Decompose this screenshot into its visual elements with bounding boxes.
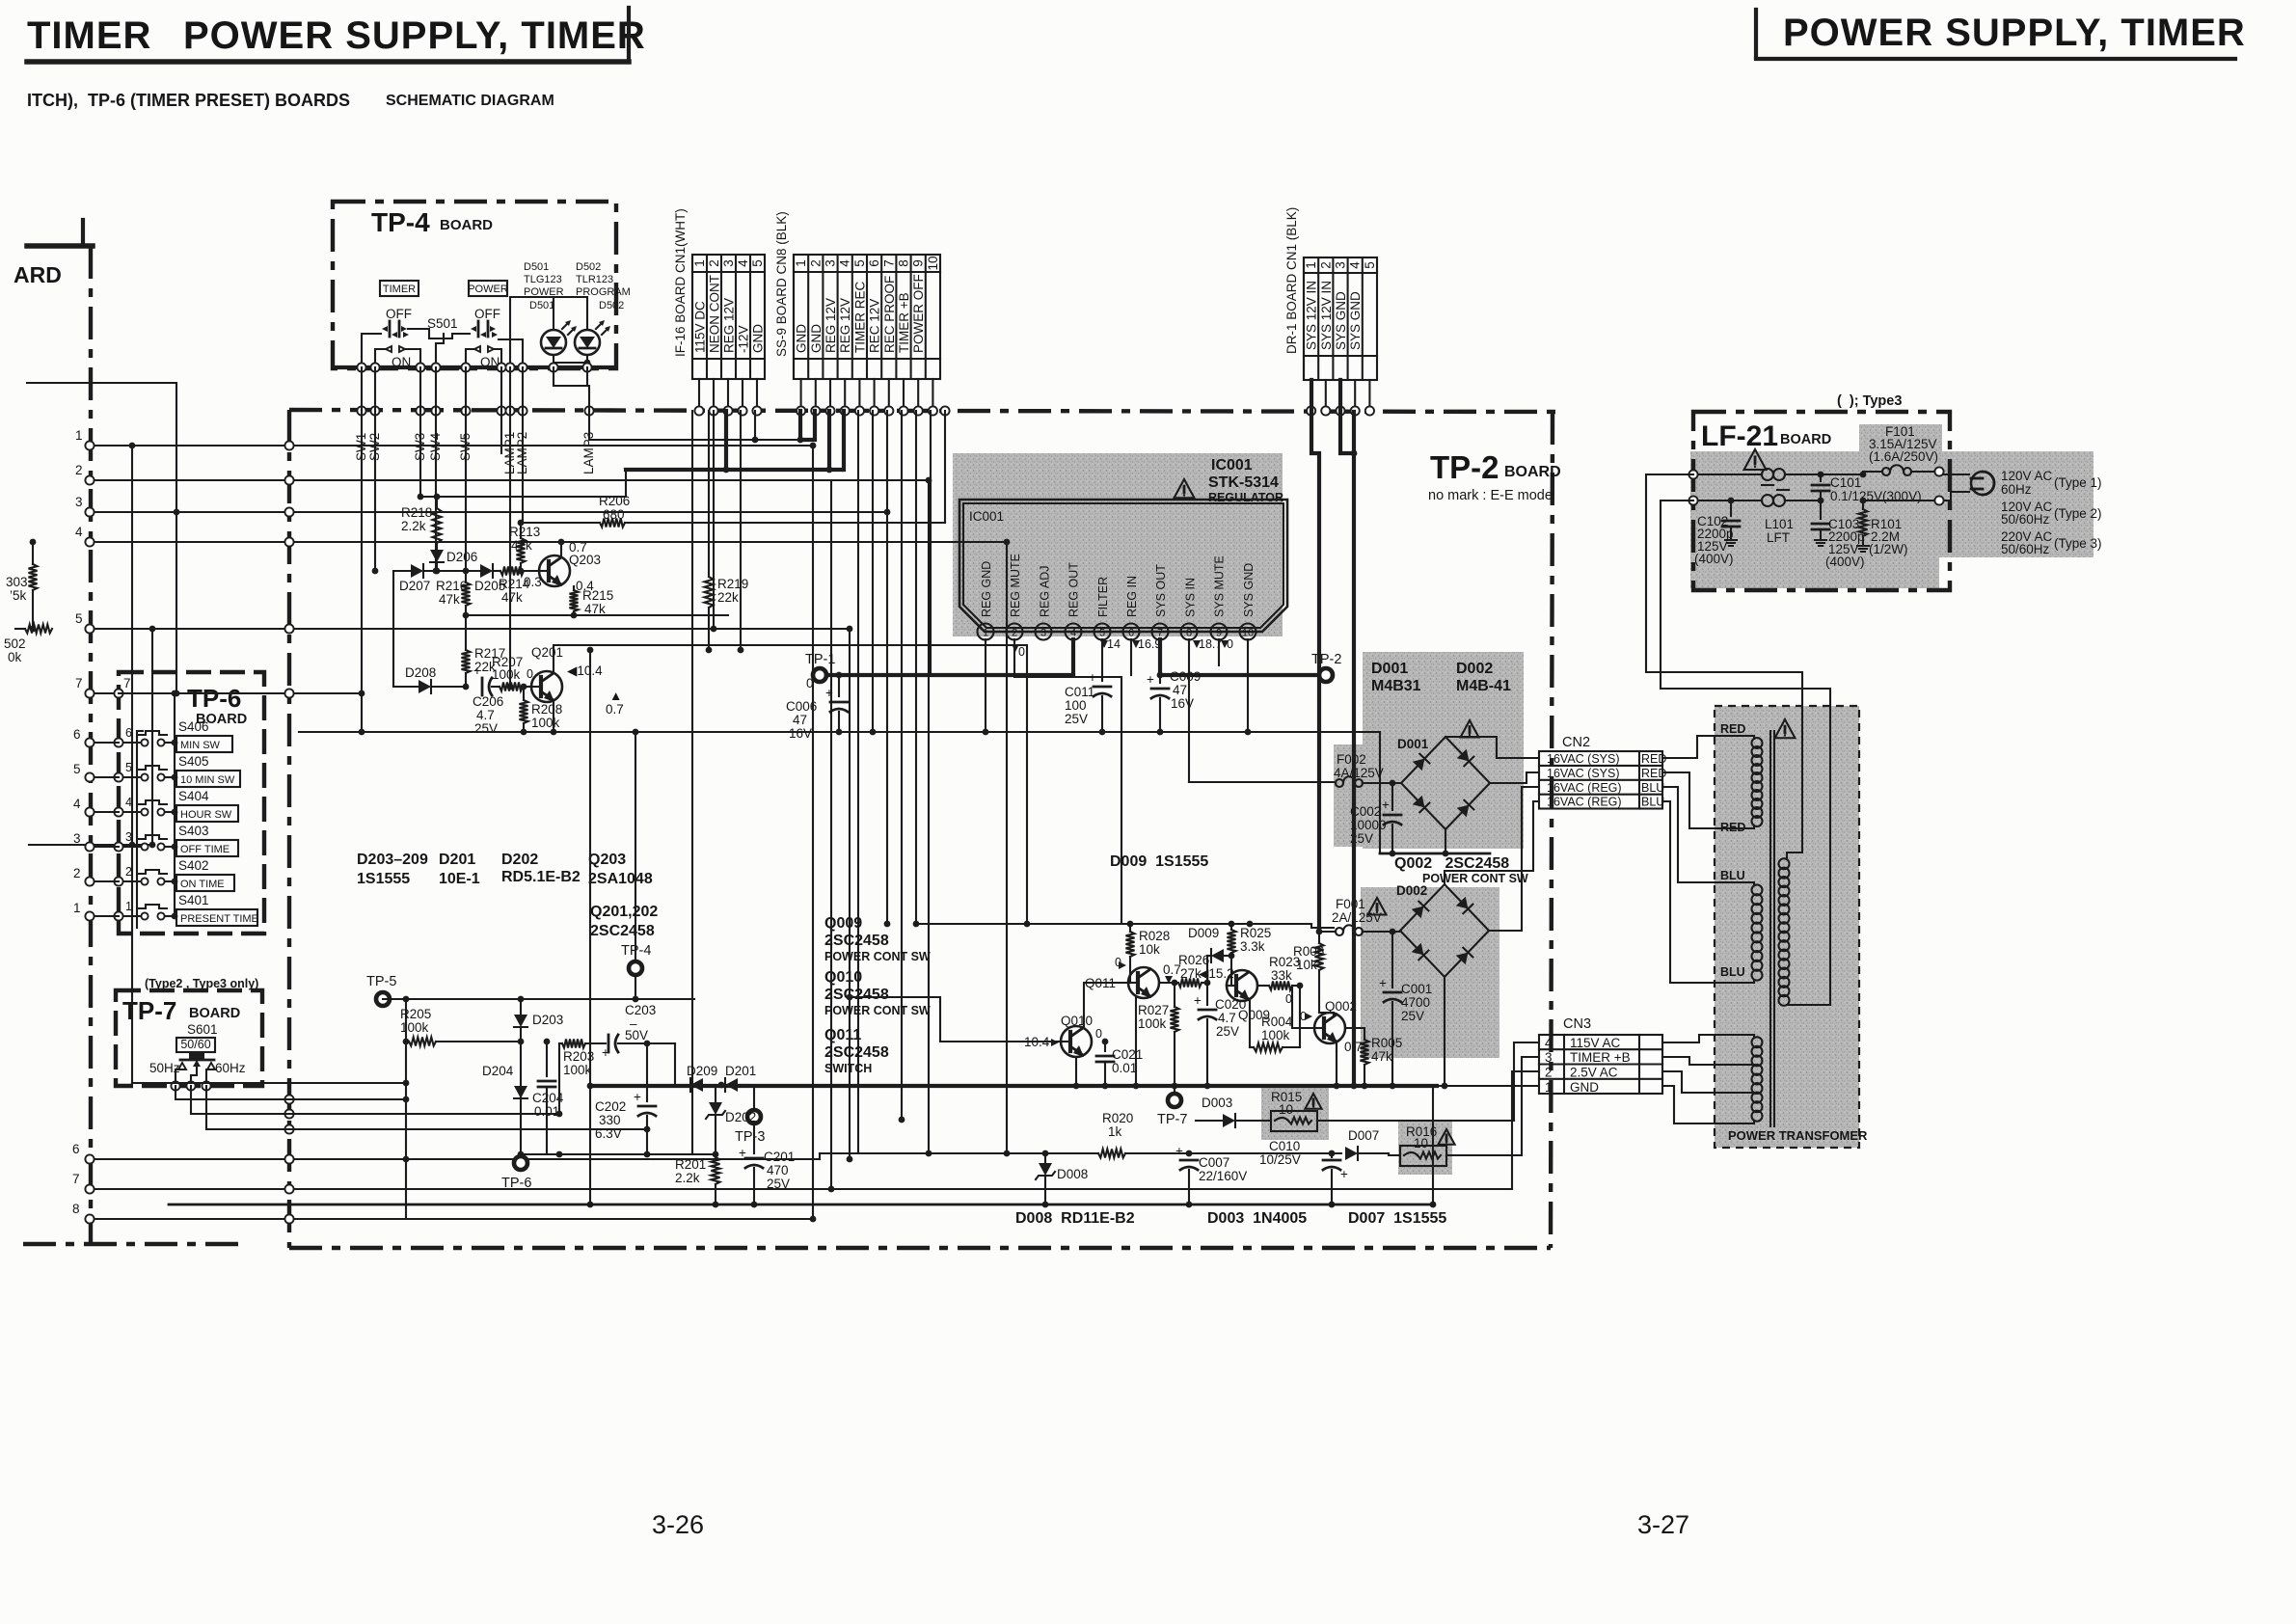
wires: DR-1 pins to TP-2 border xyxy=(1311,380,1370,412)
svg-text:3: 3 xyxy=(1545,1050,1553,1065)
svg-text:LF-21: LF-21 xyxy=(1701,420,1778,452)
svg-text:4: 4 xyxy=(73,797,81,811)
svg-text:ON TIME: ON TIME xyxy=(180,879,225,890)
svg-text:5: 5 xyxy=(125,761,132,774)
svg-text:D001: D001 xyxy=(1371,661,1408,677)
capacitor C007 22/160V xyxy=(1175,1144,1247,1207)
svg-text:OFF: OFF xyxy=(386,307,412,321)
capacitor C102 2200p xyxy=(1694,498,1740,566)
svg-text:BLU: BLU xyxy=(1641,781,1664,795)
svg-text:(400V): (400V) xyxy=(1825,555,1865,569)
vertical x963 xyxy=(926,477,932,1157)
svg-text:+: + xyxy=(1340,1167,1348,1181)
svg-text:TLG123: TLG123 xyxy=(524,274,562,285)
bottom bus y1249 xyxy=(169,1086,1539,1207)
svg-text:2: 2 xyxy=(75,463,83,477)
svg-text:TP-6: TP-6 xyxy=(501,1176,531,1191)
wire TP-1 to pin4 (thick) xyxy=(827,639,1073,675)
wires: TP-4 columns down to TP-2 border xyxy=(362,367,589,411)
svg-text:◀10.4: ◀10.4 xyxy=(567,663,603,678)
svg-text:SYS MUTE: SYS MUTE xyxy=(1213,555,1227,617)
wire R015 to CN3 row4 xyxy=(1514,1042,1539,1121)
svg-text:TP-5: TP-5 xyxy=(366,974,396,989)
svg-text:OFF: OFF xyxy=(474,307,500,321)
svg-text:TIMER +B: TIMER +B xyxy=(897,292,911,353)
resistor R026 27k xyxy=(1159,953,1209,988)
svg-text:REG 12V: REG 12V xyxy=(838,298,852,353)
capacitor C101 0.1/125V(300V) xyxy=(1812,472,1922,504)
left bus pin numbers xyxy=(72,428,83,1216)
R016 grey patch xyxy=(1398,1122,1452,1175)
capacitor C204 0.01 xyxy=(532,1039,564,1154)
svg-text:2SA1048: 2SA1048 xyxy=(588,871,653,887)
svg-text:502: 502 xyxy=(4,636,26,651)
svg-text:1: 1 xyxy=(1545,1080,1553,1095)
svg-text:D009: D009 xyxy=(1188,926,1219,940)
capacitor C010 10/25V xyxy=(1259,1139,1348,1207)
svg-text:POWER CONT SW: POWER CONT SW xyxy=(824,1004,931,1017)
wires CN2 to BLU winding xyxy=(1662,787,1754,983)
AC plug symbol xyxy=(1971,472,1994,495)
svg-text:6: 6 xyxy=(125,726,132,740)
left partial board border xyxy=(14,220,246,1244)
svg-text:SYS GND: SYS GND xyxy=(1334,291,1348,350)
svg-text:BLU: BLU xyxy=(1641,796,1664,809)
svg-text:2SC2458: 2SC2458 xyxy=(590,923,655,939)
svg-text:6: 6 xyxy=(73,727,81,742)
svg-text:0: 0 xyxy=(1095,1027,1102,1041)
svg-text:2: 2 xyxy=(73,866,81,880)
svg-text:4A/125V: 4A/125V xyxy=(1334,766,1384,780)
page number 3-26 xyxy=(652,1510,704,1539)
svg-text:GND: GND xyxy=(751,324,766,353)
connector DR-1 BOARD CN1 (BLK) xyxy=(1284,207,1377,380)
svg-text:4700: 4700 xyxy=(1401,995,1430,1010)
svg-text:IC001: IC001 xyxy=(1211,457,1253,474)
resistor R302 (partial, left edge) xyxy=(4,625,52,665)
svg-text:4: 4 xyxy=(1070,628,1076,639)
svg-text:3: 3 xyxy=(824,259,838,267)
test point TP-2 xyxy=(1311,652,1341,682)
svg-text:R213: R213 xyxy=(509,525,540,539)
capacitor C006 47 16V xyxy=(786,672,848,741)
AC voltage type labels xyxy=(2001,469,2102,556)
svg-text:Q203: Q203 xyxy=(588,852,626,868)
resistor R205 100k xyxy=(400,1007,521,1046)
svg-text:10/25V: 10/25V xyxy=(1259,1152,1301,1167)
svg-text:16VAC (REG): 16VAC (REG) xyxy=(1547,796,1622,809)
svg-text:D007: D007 xyxy=(1348,1128,1379,1143)
svg-text:SYS 12V IN: SYS 12V IN xyxy=(1305,281,1319,350)
svg-text:C010: C010 xyxy=(1269,1139,1300,1153)
svg-text:POWER: POWER xyxy=(468,284,508,295)
svg-text:Q201,202: Q201,202 xyxy=(590,904,658,920)
svg-text:D003: D003 xyxy=(1202,1096,1232,1110)
svg-text:2A/125V: 2A/125V xyxy=(1332,910,1382,925)
resistor R219 22k xyxy=(705,411,749,653)
svg-text:R219: R219 xyxy=(717,577,748,591)
svg-text:3-27: 3-27 xyxy=(1637,1510,1689,1539)
svg-text:S402: S402 xyxy=(178,858,209,873)
svg-text:1: 1 xyxy=(1304,261,1318,269)
svg-text:4: 4 xyxy=(1545,1036,1553,1050)
svg-text:D202: D202 xyxy=(725,1110,756,1124)
wire Q010 emitter xyxy=(1073,1058,1080,1089)
svg-text:D002: D002 xyxy=(1396,883,1427,898)
wire C101 top rail xyxy=(1821,472,1863,474)
svg-text:16V: 16V xyxy=(789,726,812,741)
TP-6 inner bracket xyxy=(137,693,175,928)
diode D009 xyxy=(1188,926,1234,986)
capacitor C203 50V xyxy=(585,1003,656,1060)
diode D003 xyxy=(1202,1096,1271,1127)
fusible resistor R016 10 xyxy=(1373,1124,1522,1166)
svg-text:POWER SUPPLY, TIMER: POWER SUPPLY, TIMER xyxy=(183,14,646,57)
svg-text:4: 4 xyxy=(838,259,852,267)
top rail y958 xyxy=(916,921,1334,928)
wire R016 to CN3 row3 xyxy=(1522,1057,1539,1155)
svg-text:47k: 47k xyxy=(584,602,606,616)
wires S601 to TP-7 bottom xyxy=(171,1067,211,1091)
svg-text:10E-1: 10E-1 xyxy=(439,871,480,887)
LF-21 board outline xyxy=(1693,393,1950,590)
transistor Q201 xyxy=(527,645,603,702)
svg-text:5: 5 xyxy=(1363,261,1377,269)
svg-text:REG IN: REG IN xyxy=(1125,576,1139,617)
wire y515 xyxy=(418,471,626,500)
svg-text:2SC2458: 2SC2458 xyxy=(824,1044,889,1061)
bridge rectifier D001 xyxy=(1397,737,1490,829)
wire pin7 to TP-2 (thick) xyxy=(1160,639,1318,675)
svg-text:TIMER: TIMER xyxy=(383,284,416,295)
svg-text:C021: C021 xyxy=(1112,1047,1143,1062)
svg-text:7: 7 xyxy=(75,676,83,690)
SW/LAMP column drops xyxy=(359,411,523,735)
svg-text:4: 4 xyxy=(736,259,750,267)
svg-text:REG OUT: REG OUT xyxy=(1067,562,1081,617)
svg-text:47k: 47k xyxy=(1371,1049,1392,1064)
resistor R028 10k xyxy=(1126,924,1171,983)
wires CN2 to RED winding xyxy=(1662,736,1754,828)
switch S501 (power section) xyxy=(471,307,500,369)
svg-text:D003 1N4005: D003 1N4005 xyxy=(1207,1210,1307,1227)
thick REG bus xyxy=(626,411,844,473)
svg-text:C020: C020 xyxy=(1215,997,1246,1012)
capacitor C020 4.7 25V xyxy=(1194,983,1246,1089)
svg-text:RED: RED xyxy=(1720,722,1745,736)
svg-text:22/160V: 22/160V xyxy=(1199,1169,1247,1183)
connector SS-9 BOARD CN8 (BLK) xyxy=(774,211,940,379)
svg-text:ARD: ARD xyxy=(14,262,62,287)
svg-text:F002: F002 xyxy=(1337,752,1366,767)
test point TP-1 xyxy=(805,652,835,682)
vertical x881 xyxy=(847,626,853,1163)
svg-text:S401: S401 xyxy=(178,893,209,907)
capacitor C011 100 25V xyxy=(1065,639,1111,735)
svg-text:D502: D502 xyxy=(599,300,624,311)
TP-7 board outline xyxy=(116,977,262,1086)
svg-text:9: 9 xyxy=(911,259,926,267)
svg-text:1S1555: 1S1555 xyxy=(357,871,410,887)
svg-text:10 MIN SW: 10 MIN SW xyxy=(180,774,235,786)
diode D205 xyxy=(474,564,505,593)
vertical x421 xyxy=(403,999,410,1219)
svg-text:D207: D207 xyxy=(399,579,430,593)
svg-text:1: 1 xyxy=(125,900,132,913)
svg-text:5: 5 xyxy=(750,259,765,267)
svg-text:1: 1 xyxy=(692,259,707,267)
svg-text:2: 2 xyxy=(1545,1066,1553,1080)
LED D501 xyxy=(541,320,577,355)
svg-text:REG GND: REG GND xyxy=(980,561,993,617)
wire TP-5 rail y1036 xyxy=(383,996,694,1003)
svg-text:2: 2 xyxy=(707,259,721,267)
svg-text:D001: D001 xyxy=(1397,737,1429,751)
svg-text:2.2k: 2.2k xyxy=(401,519,426,533)
svg-text:TP-7: TP-7 xyxy=(1157,1112,1187,1127)
wire pin7 long to CN3 row2 xyxy=(1512,1071,1539,1189)
wire Q201 collector xyxy=(554,645,1030,927)
svg-text:Q009: Q009 xyxy=(824,915,862,932)
svg-text:(1.6A/250V): (1.6A/250V) xyxy=(1869,449,1938,464)
svg-text:47: 47 xyxy=(1173,683,1187,697)
svg-text:33k: 33k xyxy=(1271,968,1292,983)
svg-text:TP-6: TP-6 xyxy=(187,684,241,713)
svg-text:GND: GND xyxy=(809,324,824,353)
switch S601 50/60 xyxy=(149,1022,246,1075)
svg-text:8: 8 xyxy=(1186,628,1192,639)
svg-text:TIMER +B: TIMER +B xyxy=(1570,1050,1631,1065)
svg-text:50/60: 50/60 xyxy=(180,1038,210,1051)
switch S401 PRESENT TIME xyxy=(114,893,257,926)
resistor R206 680 xyxy=(521,494,945,528)
svg-text:POWER OFF: POWER OFF xyxy=(911,274,926,353)
svg-text:IF-16 BOARD CN1(WHT): IF-16 BOARD CN1(WHT) xyxy=(673,208,688,357)
svg-text:D201: D201 xyxy=(439,852,475,868)
svg-text:DR-1 BOARD CN1 (BLK): DR-1 BOARD CN1 (BLK) xyxy=(1284,207,1299,354)
svg-text:R020: R020 xyxy=(1102,1111,1133,1125)
svg-text:(400V): (400V) xyxy=(1694,552,1734,566)
switch S405 10 MIN SW xyxy=(114,754,240,787)
svg-text:10k: 10k xyxy=(1139,942,1160,957)
R015 grey patch xyxy=(1261,1086,1329,1140)
svg-text:S601: S601 xyxy=(187,1022,218,1037)
svg-text:C007: C007 xyxy=(1199,1155,1229,1170)
diode D208 xyxy=(393,571,466,693)
svg-text:25V: 25V xyxy=(767,1177,790,1191)
vertical x1044 xyxy=(1004,539,1011,1157)
emitter bus y1126 xyxy=(590,1084,1437,1088)
svg-text:D002: D002 xyxy=(1456,661,1493,677)
svg-text:0: 0 xyxy=(527,667,533,681)
svg-text:R218: R218 xyxy=(401,505,432,520)
svg-text:D501: D501 xyxy=(529,300,554,311)
svg-text:R006: R006 xyxy=(1293,944,1324,959)
capacitor C103 2200p xyxy=(1812,501,1865,569)
svg-text:16V: 16V xyxy=(1171,696,1194,711)
resistor R027 100k xyxy=(1138,980,1179,1090)
svg-text:RD5.1E-B2: RD5.1E-B2 xyxy=(501,869,581,885)
svg-text:R005: R005 xyxy=(1371,1036,1402,1050)
vertical x612 xyxy=(587,647,594,1208)
wire Q201 emitter to bus xyxy=(551,700,557,735)
TP-2 board label xyxy=(1428,449,1561,503)
svg-text:S403: S403 xyxy=(178,824,209,838)
svg-text:1: 1 xyxy=(983,628,988,639)
svg-text:5: 5 xyxy=(1099,628,1105,639)
svg-text:BOARD: BOARD xyxy=(440,217,493,233)
svg-text:-12V: -12V xyxy=(737,325,751,353)
svg-text:TP-4: TP-4 xyxy=(371,207,430,237)
wires TP-7 to TP-2 xyxy=(132,1080,647,1129)
svg-text:Q203: Q203 xyxy=(569,553,601,567)
connector IF-16 BOARD CN1 (WHT) xyxy=(673,208,766,379)
svg-text:100k: 100k xyxy=(531,716,560,730)
D001 bridge grey patch xyxy=(1334,652,1524,849)
svg-text:+: + xyxy=(634,1090,641,1104)
svg-text:1: 1 xyxy=(73,901,81,915)
IC001 pins xyxy=(978,554,1256,639)
svg-text:10: 10 xyxy=(926,256,940,270)
bridge rectifier D002 xyxy=(1396,883,1489,977)
svg-text:16VAC (REG): 16VAC (REG) xyxy=(1547,781,1622,795)
test point TP-6 xyxy=(501,1156,531,1191)
svg-text:16.9: 16.9 xyxy=(1138,637,1161,651)
svg-text:FILTER: FILTER xyxy=(1096,577,1110,617)
svg-text:6: 6 xyxy=(72,1142,80,1156)
zener D008 xyxy=(1036,1150,1088,1208)
wires D002 to CN2 xyxy=(1445,787,1539,931)
wire Q010 base xyxy=(850,997,1061,1042)
parts list D203-209 etc xyxy=(357,852,653,887)
svg-text:Q002 2SC2458: Q002 2SC2458 xyxy=(1394,855,1509,872)
svg-text:C011: C011 xyxy=(1065,685,1094,699)
svg-text:R215: R215 xyxy=(582,588,613,603)
svg-text:SYS 12V IN: SYS 12V IN xyxy=(1319,281,1334,350)
vertical x843 xyxy=(810,443,817,1223)
svg-text:R028: R028 xyxy=(1139,929,1170,943)
svg-text:+: + xyxy=(1194,993,1202,1008)
TP-6 pin 7 row xyxy=(114,676,177,698)
svg-text:100: 100 xyxy=(1065,698,1087,713)
svg-text:C201: C201 xyxy=(764,1150,795,1164)
svg-text:Q011: Q011 xyxy=(824,1027,861,1043)
svg-text:0.01: 0.01 xyxy=(1112,1061,1137,1075)
D002 bridge grey patch xyxy=(1361,887,1499,1058)
svg-text:◀15.2: ◀15.2 xyxy=(1199,966,1234,981)
svg-text:+: + xyxy=(473,663,481,678)
left horizontal bus wires xyxy=(90,446,1512,1219)
svg-text:Q010: Q010 xyxy=(1061,1014,1093,1028)
svg-text:14: 14 xyxy=(1107,637,1121,651)
svg-text:2.2k: 2.2k xyxy=(675,1171,700,1185)
primary connection wires xyxy=(1787,853,1830,1005)
svg-text:3-26: 3-26 xyxy=(652,1510,704,1539)
svg-text:6: 6 xyxy=(867,259,881,267)
svg-text:M4B-41: M4B-41 xyxy=(1456,678,1511,694)
svg-text:LFT: LFT xyxy=(1767,530,1790,545)
TP-6 board outline xyxy=(119,672,264,934)
primary winding xyxy=(1779,858,1790,1006)
warning triangle LF-21 xyxy=(1744,449,1767,470)
switch S402 ON TIME xyxy=(114,858,234,891)
svg-text:POWER CONT SW: POWER CONT SW xyxy=(1422,872,1528,885)
svg-text:+: + xyxy=(1379,976,1387,990)
svg-text:5: 5 xyxy=(852,259,867,267)
GND link wires xyxy=(589,411,815,443)
diode D206 xyxy=(430,543,477,574)
CN3 connector table xyxy=(1539,1016,1662,1095)
svg-text:R004: R004 xyxy=(1261,1015,1293,1029)
svg-text:303: 303 xyxy=(6,575,28,589)
capacitor C002 10000 25V xyxy=(1350,783,1401,853)
IC001 grey block xyxy=(953,453,1283,636)
svg-text:16VAC (SYS): 16VAC (SYS) xyxy=(1547,752,1620,766)
LED D502 labels xyxy=(576,261,631,311)
svg-text:4: 4 xyxy=(125,796,132,809)
svg-text:▲: ▲ xyxy=(609,689,622,703)
svg-text:680: 680 xyxy=(603,507,625,522)
svg-text:100k: 100k xyxy=(563,1063,592,1077)
resistor R217 22k xyxy=(462,615,506,690)
svg-text:4: 4 xyxy=(1348,261,1363,269)
diode D207 xyxy=(393,564,480,593)
svg-text:+: + xyxy=(1089,670,1096,685)
open nodes on left board border xyxy=(85,441,293,1223)
fuse F101 3.15A/125V xyxy=(1860,424,1939,477)
labels D001 M4B31 / D002 M4B-41 xyxy=(1371,661,1511,694)
svg-text:4.7: 4.7 xyxy=(1218,1011,1236,1025)
wire Q203 collector xyxy=(558,539,565,557)
wire y1197 xyxy=(521,1151,716,1158)
svg-text:2: 2 xyxy=(1012,628,1017,639)
svg-text:ITCH), TP-6 (TIMER PRESET) BO: ITCH), TP-6 (TIMER PRESET) BOARDS xyxy=(27,91,350,110)
resistor R207 100k xyxy=(500,683,531,691)
svg-text:D201: D201 xyxy=(725,1064,756,1078)
svg-text:3: 3 xyxy=(125,830,132,844)
svg-text:GND: GND xyxy=(1570,1080,1599,1095)
svg-text:(1/2W): (1/2W) xyxy=(1869,542,1908,556)
svg-text:TP-2: TP-2 xyxy=(1430,449,1499,485)
svg-text:REG MUTE: REG MUTE xyxy=(1009,554,1022,617)
svg-text:7: 7 xyxy=(881,259,896,267)
svg-text:4: 4 xyxy=(75,525,83,539)
DR-1 thick drops xyxy=(1311,380,1357,1089)
svg-text:0: 0 xyxy=(1018,645,1025,659)
parts list Q010 xyxy=(824,969,931,1017)
svg-text:7: 7 xyxy=(123,676,131,690)
svg-text:REG 12V: REG 12V xyxy=(722,298,737,353)
svg-text:2: 2 xyxy=(808,259,823,267)
LF-21 grey interior xyxy=(1690,424,2093,588)
svg-text:POWER CONT SW: POWER CONT SW xyxy=(824,950,931,963)
svg-text:(Type 3): (Type 3) xyxy=(2054,536,2102,551)
svg-text:C206: C206 xyxy=(473,694,503,709)
svg-text:SS-9 BOARD CN8 (BLK): SS-9 BOARD CN8 (BLK) xyxy=(774,211,789,357)
svg-text:GND: GND xyxy=(795,324,809,353)
svg-text:C203: C203 xyxy=(625,1003,656,1017)
resistor R025 3.3k xyxy=(1228,924,1272,986)
svg-text:R025: R025 xyxy=(1240,926,1271,940)
ground bus y759 xyxy=(299,731,1380,733)
svg-text:50/60Hz: 50/60Hz xyxy=(2001,512,2050,527)
svg-text:D502: D502 xyxy=(576,261,601,273)
svg-text:S405: S405 xyxy=(178,754,209,769)
fuse F002 4A/125V xyxy=(1334,752,1401,787)
resistor R218 2.2k xyxy=(401,494,442,543)
svg-text:+: + xyxy=(602,1045,609,1060)
svg-text:D204: D204 xyxy=(482,1064,514,1078)
